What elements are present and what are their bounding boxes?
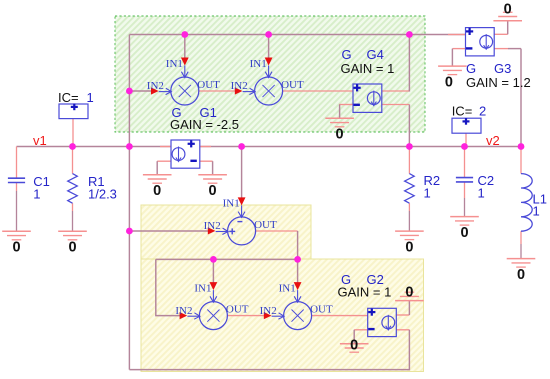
IC2 initial-condition block bbox=[452, 103, 487, 133]
lead R1 bottom bbox=[72, 203, 74, 231]
lead L1 bottom bbox=[520, 231, 522, 258]
junction bus / R1-IC1 dot bbox=[69, 143, 76, 150]
svg-text:OUT: OUT bbox=[254, 219, 277, 231]
ground R2 bbox=[395, 231, 424, 255]
wire G4 out-bottom to v1 bus bbox=[382, 105, 410, 147]
wire G3 out-bottom to v2 bbox=[494, 49, 521, 147]
summer S1 IN2 arrow bbox=[208, 227, 229, 234]
multiplier M3 IN2 arrow bbox=[180, 312, 201, 319]
wire v1 bus left bbox=[17, 146, 172, 148]
ground G4 bbox=[325, 118, 354, 142]
ground G1 right bbox=[198, 175, 227, 199]
wire M2 IN1 stub bbox=[268, 35, 270, 61]
wire M3 IN1 stub bbox=[212, 259, 214, 284]
lead C2 top bbox=[464, 147, 466, 178]
ground G1 left bbox=[143, 175, 172, 199]
multiplier M2 pin labels bbox=[231, 58, 304, 92]
junction bus / C2-IC2 dot bbox=[461, 143, 468, 150]
wire M4 OUT to G2 plus bbox=[311, 315, 368, 317]
ground G2 top inverted bbox=[395, 284, 424, 300]
multiplier M3 circle bbox=[199, 302, 227, 330]
svg-text:IN2: IN2 bbox=[260, 305, 277, 317]
svg-text:0: 0 bbox=[153, 183, 161, 199]
svg-text:IN2: IN2 bbox=[147, 80, 164, 92]
junction top wire / G4 dot bbox=[406, 31, 413, 38]
svg-text:0: 0 bbox=[350, 338, 358, 354]
junction top wire / M2 dot bbox=[265, 31, 272, 38]
ground G2 left bbox=[340, 338, 369, 354]
junction bus / left column dot bbox=[126, 143, 133, 150]
svg-text:v2: v2 bbox=[486, 133, 500, 148]
wire M3 OUT to M4 IN2 bbox=[227, 315, 264, 317]
lead R2 top bbox=[408, 147, 410, 174]
lead G1 plus pin bbox=[200, 146, 211, 148]
multiplier M1 pin labels bbox=[147, 58, 220, 92]
wire G2 out-top to ground bbox=[396, 301, 409, 315]
svg-text:IN1: IN1 bbox=[223, 198, 240, 210]
svg-text:0: 0 bbox=[405, 239, 413, 255]
lead IC2 stem bbox=[465, 134, 467, 147]
yellow highlighted region upper bbox=[141, 205, 311, 272]
wire left column x=129 bbox=[128, 35, 130, 370]
lead C1 bottom bbox=[16, 183, 18, 232]
svg-text:1: 1 bbox=[424, 186, 431, 201]
ground R1 bbox=[58, 231, 87, 255]
junction row wire / M3 dot bbox=[210, 256, 217, 263]
svg-text:0: 0 bbox=[445, 74, 453, 90]
svg-text:1: 1 bbox=[533, 204, 540, 219]
vccs G3 bbox=[466, 28, 495, 56]
lead IC1 stem bbox=[72, 119, 74, 147]
junction top wire / M1 dot bbox=[181, 31, 188, 38]
svg-text:OUT: OUT bbox=[281, 79, 304, 91]
svg-text:1/2.3: 1/2.3 bbox=[88, 187, 117, 202]
G1 gain label bbox=[170, 117, 239, 132]
svg-text:0: 0 bbox=[336, 127, 344, 143]
svg-text:GAIN = 1: GAIN = 1 bbox=[341, 61, 395, 76]
multiplier M3 IN1 arrow bbox=[210, 282, 218, 302]
multiplier M1 IN1 arrow bbox=[181, 58, 189, 78]
lead C2 bottom bbox=[464, 182, 466, 217]
node v1 label bbox=[33, 133, 47, 148]
svg-text:IN1: IN1 bbox=[279, 282, 296, 294]
wire left drop to M3 IN2 bbox=[156, 259, 180, 315]
G2 gain label bbox=[338, 285, 392, 300]
multiplier M1 IN2 arrow bbox=[151, 87, 172, 94]
junction bus / G3-L1 dot bbox=[518, 143, 525, 150]
svg-text:1: 1 bbox=[87, 90, 94, 105]
multiplier M3 pin labels bbox=[175, 282, 248, 316]
wire G2 out-bottom loop bbox=[129, 330, 409, 370]
vccs G2 bbox=[368, 308, 397, 336]
summer S1 circle bbox=[228, 217, 256, 245]
resistor R2 bbox=[405, 173, 441, 203]
G2 label bbox=[341, 272, 384, 287]
wire M1 OUT to M2 IN2 bbox=[199, 90, 237, 92]
lead R1 top bbox=[72, 147, 74, 174]
junction bus / summer IN1 dot bbox=[238, 143, 245, 150]
lead G1 left pin bbox=[160, 146, 171, 148]
svg-text:OUT: OUT bbox=[226, 304, 249, 316]
svg-text:IN1: IN1 bbox=[250, 58, 267, 70]
ground G3 top inverted bbox=[493, 2, 522, 21]
resistor R1 bbox=[68, 174, 117, 204]
svg-text:IN2: IN2 bbox=[204, 220, 221, 232]
svg-text:0: 0 bbox=[517, 267, 525, 283]
svg-text:GAIN = 1: GAIN = 1 bbox=[338, 285, 392, 300]
capacitor C1 bbox=[8, 174, 50, 202]
svg-text:IC=: IC= bbox=[58, 90, 79, 105]
wire G2 minus to ground bbox=[354, 330, 368, 344]
multiplier M1 circle bbox=[171, 77, 199, 105]
lead R2 bottom bbox=[408, 203, 410, 231]
svg-text:0: 0 bbox=[209, 183, 217, 199]
lead L1 top bbox=[520, 147, 522, 174]
ground L1 bbox=[507, 259, 536, 283]
svg-text:0: 0 bbox=[68, 240, 76, 256]
G4 label bbox=[342, 47, 384, 62]
multiplier M4 pin labels bbox=[260, 282, 333, 316]
G3 gain label bbox=[466, 75, 531, 90]
node v2 label bbox=[486, 133, 500, 148]
G1 label bbox=[172, 105, 217, 120]
IC1 initial-condition block bbox=[58, 90, 94, 119]
wire M4 IN1 stub bbox=[297, 259, 299, 284]
lead C1 top bbox=[16, 147, 18, 179]
wire G1 out-bottom to ground bbox=[157, 161, 171, 175]
svg-text:G4: G4 bbox=[367, 47, 384, 62]
svg-text:GAIN = 1.2: GAIN = 1.2 bbox=[466, 75, 531, 90]
svg-text:IN2: IN2 bbox=[231, 80, 248, 92]
svg-text:IC=: IC= bbox=[452, 103, 473, 118]
wire G3 out-top to ground bbox=[494, 21, 508, 35]
multiplier M2 IN2 arrow bbox=[235, 87, 256, 94]
junction row wire / M4 dot bbox=[294, 256, 301, 263]
wire M1 IN1 stub bbox=[184, 35, 186, 61]
junction left column / summer IN2 dot bbox=[126, 228, 133, 235]
svg-text:0: 0 bbox=[405, 284, 413, 300]
wire summer OUT down bbox=[255, 231, 297, 259]
ground G3 left bbox=[438, 66, 467, 90]
svg-text:IN1: IN1 bbox=[194, 282, 211, 294]
multiplier M4 circle bbox=[284, 302, 312, 330]
multiplier M4 IN1 arrow bbox=[294, 282, 302, 302]
svg-text:IN2: IN2 bbox=[175, 305, 192, 317]
svg-text:2: 2 bbox=[479, 103, 486, 118]
wire M1 IN2 stub bbox=[129, 90, 152, 92]
wire summer IN2 bbox=[129, 230, 208, 232]
wire G4 out-top to top feedback bbox=[382, 35, 410, 92]
inductor L1 bbox=[521, 174, 547, 232]
junction left column / M1 IN2 dot bbox=[126, 88, 133, 95]
wire G3 plus stub bbox=[448, 34, 466, 36]
wire summer IN1 stub bbox=[241, 147, 243, 199]
multiplier M2 circle bbox=[255, 77, 283, 105]
vccs G4 bbox=[353, 84, 382, 112]
wire M2 OUT to G4 plus bbox=[283, 90, 353, 92]
svg-text:v1: v1 bbox=[33, 133, 47, 148]
svg-text:IN1: IN1 bbox=[166, 58, 183, 70]
svg-text:OUT: OUT bbox=[310, 304, 333, 316]
svg-text:0: 0 bbox=[504, 2, 512, 18]
G4 gain label bbox=[341, 61, 395, 76]
multiplier M4 IN2 arrow bbox=[264, 312, 285, 319]
capacitor C2 bbox=[456, 173, 494, 200]
yellow highlighted region lower bbox=[141, 259, 424, 372]
summer S1 IN1 arrow bbox=[238, 197, 246, 217]
vccs G1 bbox=[171, 140, 200, 168]
wire M3/M4 row feedback bbox=[156, 258, 298, 260]
junction bus / G4-R2 dot bbox=[406, 143, 413, 150]
svg-text:OUT: OUT bbox=[197, 79, 220, 91]
wire G3 minus to ground bbox=[452, 49, 465, 67]
wire G4 minus to ground bbox=[339, 105, 353, 119]
svg-text:0: 0 bbox=[12, 240, 20, 256]
ground C2 bbox=[450, 217, 479, 241]
svg-text:GAIN = -2.5: GAIN = -2.5 bbox=[170, 117, 239, 132]
svg-text:1: 1 bbox=[33, 187, 40, 202]
svg-text:1: 1 bbox=[478, 186, 485, 201]
wire green-region top feedback bbox=[129, 34, 465, 36]
green highlighted region bbox=[115, 16, 425, 132]
wire v1-v2 bus right bbox=[200, 146, 521, 148]
ground C1 bbox=[2, 231, 31, 255]
svg-text:G: G bbox=[342, 47, 352, 62]
G3 label bbox=[466, 61, 511, 76]
svg-text:0: 0 bbox=[460, 225, 468, 241]
summer S1 pin labels bbox=[204, 198, 277, 232]
wire G1 minus to ground bbox=[200, 161, 213, 175]
multiplier M2 IN1 arrow bbox=[265, 58, 273, 78]
